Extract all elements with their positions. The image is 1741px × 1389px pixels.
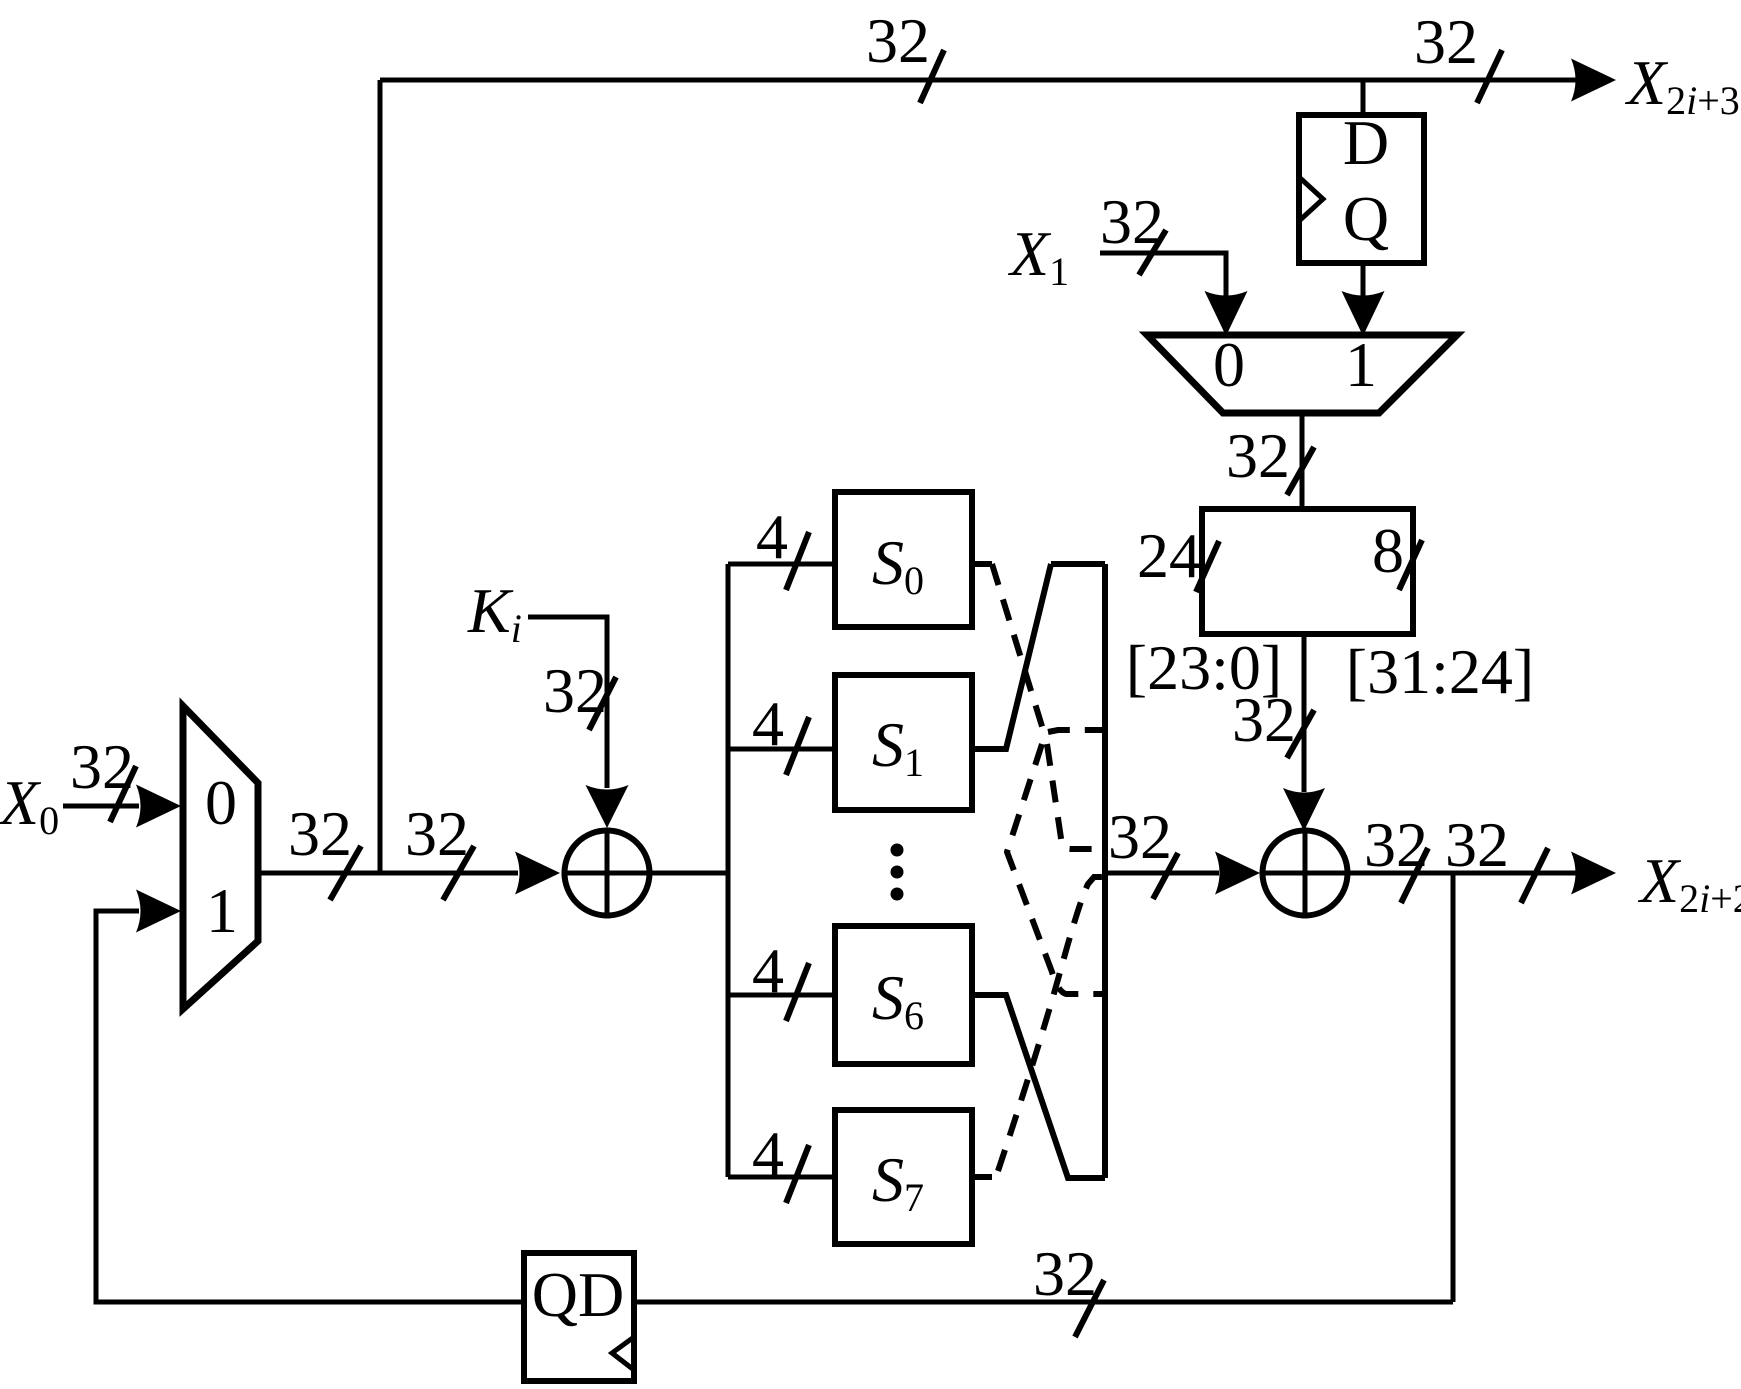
- slash before xor X1: [443, 846, 474, 900]
- arrow into mux M1 input 1: [1342, 291, 1385, 336]
- wire: branch to sbox S0: [728, 562, 835, 567]
- sbox S7: [835, 1110, 972, 1244]
- wire: bottom feedback to QD register: [634, 1300, 1453, 1305]
- wire: X0 into mux M2 input 0: [63, 804, 139, 809]
- slash after xor X2: [1401, 848, 1428, 903]
- wire: tap down to D flip-flop input: [1361, 80, 1366, 116]
- wire: mux M2 output to xor X1: [258, 871, 518, 876]
- arrow into mux M1 input 0: [1205, 291, 1248, 336]
- wire: xor X2 output to X2i+2: [1350, 871, 1578, 876]
- register U2 QD box: [524, 1253, 634, 1381]
- svg-text:32: 32: [1226, 420, 1290, 491]
- svg-text:D: D: [1343, 107, 1389, 178]
- arrow to X2i+2: [1571, 852, 1616, 895]
- slash after mux M2: [330, 846, 361, 900]
- wire: dashed diamond left to position 5: [1007, 744, 1105, 994]
- slash on S0 branch: [786, 532, 809, 590]
- sbox S0: [835, 492, 972, 627]
- permutation collector vertical line: [1102, 564, 1108, 1178]
- wire: S1 output solid diagonal up: [972, 564, 1051, 749]
- xor X1: [565, 831, 650, 916]
- slash on S6 branch: [786, 963, 809, 1021]
- wire: branch to sbox S1: [728, 747, 835, 752]
- wire: X1 into mux M1 input 0: [1100, 253, 1226, 300]
- arrow into xor X2 top: [1283, 788, 1325, 831]
- ellipsis dots between S1 and S6: [891, 844, 904, 857]
- svg-text:24: 24: [1137, 520, 1201, 591]
- wire: dashed middle to position 3: [1047, 744, 1105, 849]
- register U1 D/Q flip-flop box: [1299, 115, 1424, 263]
- wire: top feedback horizontal X2i+3 line: [380, 78, 1578, 83]
- slash on top wire right: [1477, 50, 1502, 103]
- mux M2 trapezoid: [183, 706, 258, 1009]
- wire: left feedback vertical from top wire to mux output row: [378, 80, 383, 873]
- slash on S1 branch: [786, 717, 809, 775]
- arrow into mux M2 input 0: [136, 785, 181, 828]
- slash below mux M1: [1287, 447, 1314, 495]
- slash on 8 side: [1399, 540, 1422, 590]
- wire: byte rotate output down to xor X2: [1302, 634, 1307, 792]
- wire: permutation output into xor X2: [1105, 871, 1219, 876]
- slash above xor X2: [1287, 710, 1314, 758]
- byte rotate box: [1202, 509, 1413, 634]
- svg-text:32: 32: [866, 5, 930, 76]
- clock chevron on U2: [612, 1337, 634, 1370]
- slash on Ki wire: [589, 677, 616, 730]
- xor X2: [1263, 831, 1348, 916]
- arrow into xor X1 top: [586, 785, 629, 828]
- svg-text:4: 4: [756, 501, 788, 572]
- mux M1 trapezoid: [1147, 335, 1457, 413]
- svg-text:1: 1: [1345, 329, 1377, 400]
- svg-text:32: 32: [288, 798, 352, 869]
- svg-text:32: 32: [405, 798, 469, 869]
- sbox S1: [835, 675, 972, 810]
- slash on bottom wire: [1075, 1280, 1104, 1337]
- arrow into xor X1 left: [515, 852, 560, 895]
- svg-text:32: 32: [1414, 6, 1478, 77]
- wire: Ki down into xor X1: [528, 617, 607, 788]
- wire: QD output feedback to mux M2 input 1: [96, 911, 524, 1302]
- wire: mux M1 output to byte-split box: [1300, 411, 1305, 509]
- svg-text:0: 0: [1213, 329, 1245, 400]
- svg-text:32: 32: [1445, 809, 1509, 880]
- arrow into mux M2 input 1: [136, 890, 181, 933]
- sbox input bus vertical: [726, 564, 731, 1177]
- svg-text:8: 8: [1372, 515, 1404, 586]
- sbox S6: [835, 926, 972, 1064]
- slash on top wire left: [920, 50, 944, 103]
- wire: Q output down to mux M1 input 1: [1361, 263, 1366, 300]
- slash on S7 branch: [786, 1145, 809, 1203]
- arrow into xor X2 left: [1215, 852, 1260, 895]
- wire: S7 output dashed up to position 4: [972, 877, 1105, 1177]
- arrow to X2i+3: [1571, 59, 1616, 102]
- svg-text:[31:24]: [31:24]: [1346, 636, 1534, 707]
- wire: junction down from X2i+2 line: [1451, 873, 1456, 1302]
- svg-text:QD: QD: [532, 1259, 624, 1330]
- clock chevron on U1: [1299, 177, 1323, 221]
- svg-text:Q: Q: [1343, 183, 1389, 254]
- wire: S6 output solid diagonal down: [972, 995, 1105, 1178]
- svg-text:1: 1: [206, 875, 238, 946]
- wire: S0 output dashed to position 2: [972, 564, 1105, 736]
- slash before X2i+2: [1521, 848, 1548, 903]
- slash on X0 wire: [110, 766, 136, 822]
- wire: xor X1 output to sbox input bus: [652, 871, 728, 876]
- wire: branch to sbox S6: [728, 993, 835, 998]
- svg-text:32: 32: [1033, 1238, 1097, 1309]
- svg-text:32: 32: [1108, 801, 1172, 872]
- svg-text:32: 32: [1232, 684, 1296, 755]
- svg-text:4: 4: [752, 935, 784, 1006]
- slash on X1 wire: [1139, 230, 1166, 275]
- svg-text:4: 4: [752, 688, 784, 759]
- slash on perm output: [1153, 853, 1178, 899]
- svg-text:4: 4: [752, 1118, 784, 1189]
- wire: perm top horizontal: [1051, 561, 1105, 567]
- svg-text:0: 0: [205, 767, 237, 838]
- slash on 24 side: [1196, 541, 1219, 592]
- wire: branch to sbox S7: [728, 1175, 835, 1180]
